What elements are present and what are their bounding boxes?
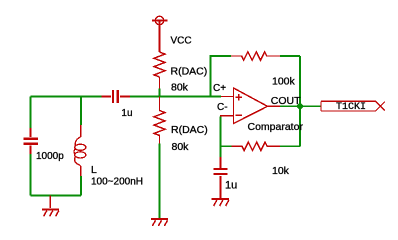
svg-text:R(DAC): R(DAC) — [171, 124, 208, 136]
svg-text:R(DAC): R(DAC) — [171, 66, 208, 78]
svg-text:COUT: COUT — [271, 95, 301, 107]
wire: lower node to 10k — [221, 145, 232, 147]
wire: LC tank bottom — [31, 195, 82, 197]
capacitor C3 1000p — [24, 128, 39, 154]
svg-text:100~200nH: 100~200nH — [91, 177, 143, 188]
ground for LC tank — [42, 196, 59, 217]
svg-text:L: L — [91, 164, 97, 176]
wire: R2 bottom to ground — [159, 144, 161, 219]
svg-text:VCC: VCC — [171, 36, 192, 47]
svg-text:C+: C+ — [213, 83, 226, 94]
ground under R2 — [151, 219, 168, 226]
wire: feedback left vertical — [211, 56, 232, 97]
svg-text:10k: 10k — [272, 165, 290, 177]
svg-text:100k: 100k — [272, 75, 296, 87]
wire: R stem green above main wire — [159, 88, 161, 96]
op-amp U1 comparator — [220, 88, 280, 124]
resistor R(DAC) 80k upper — [154, 52, 165, 88]
wire: feedback top right segment — [280, 55, 300, 57]
capacitor C4 1u (to ground) — [214, 157, 228, 198]
wire: right vertical bus — [299, 56, 301, 146]
wire: C- input to lower node — [220, 117, 222, 158]
power VCC symbol — [152, 16, 168, 52]
ground under C4 — [212, 199, 230, 206]
capacitor C2 1u series (horizontal) — [102, 90, 131, 103]
resistor R(DAC) 80k lower — [154, 97, 165, 144]
wire: main node C1 right side to opamp — [130, 96, 221, 98]
svg-text:1000p: 1000p — [36, 151, 64, 162]
svg-text:Comparator: Comparator — [248, 121, 304, 133]
resistor R3 100k feedback — [231, 52, 280, 60]
wire: inductor branch verticals — [80, 97, 82, 196]
svg-text:C-: C- — [217, 102, 228, 113]
node: output junction dot — [296, 103, 304, 111]
wire: 10k right lead to bus — [280, 145, 300, 147]
svg-text:1u: 1u — [121, 108, 132, 119]
inductor L coil — [74, 125, 86, 176]
svg-text:T1CKI: T1CKI — [336, 102, 366, 113]
resistor R4 10k — [232, 142, 281, 150]
wire: opamp output green to port — [280, 105, 321, 107]
svg-text:1u: 1u — [225, 180, 237, 192]
port T1CKI — [321, 101, 385, 111]
svg-text:80k: 80k — [171, 81, 189, 93]
wire: LC tank top from left corner to C1 — [31, 96, 102, 98]
wire: LC tank left vertical — [30, 97, 32, 196]
svg-text:80k: 80k — [172, 141, 190, 153]
